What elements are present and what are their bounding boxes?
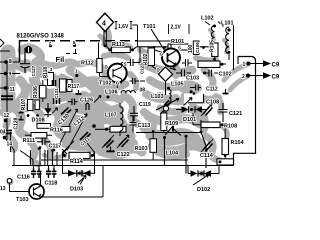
svg-text:C112: C112 [206,87,218,93]
svg-text:Fil: Fil [56,55,65,64]
svg-text:R118: R118 [43,67,49,79]
svg-text:C9: C9 [272,75,280,81]
svg-text:D103: D103 [70,187,83,193]
svg-text:2: 2 [242,74,245,80]
svg-text:08: 08 [140,88,146,94]
svg-text:R114: R114 [70,159,84,165]
svg-text:C9: C9 [272,63,280,69]
svg-text:R103: R103 [135,146,148,152]
svg-text:C103: C103 [186,76,199,82]
svg-text:4: 4 [102,20,106,27]
svg-text:C108: C108 [206,99,219,105]
svg-text:D108: D108 [32,118,45,124]
svg-text:9: 9 [9,72,12,78]
svg-text:C128: C128 [14,117,20,129]
svg-text:R108: R108 [224,124,237,130]
svg-text:13: 13 [0,186,6,192]
svg-text:C106: C106 [195,42,200,53]
svg-text:R113: R113 [112,42,125,48]
svg-text:1: 1 [243,62,246,68]
svg-text:G: G [160,52,164,57]
svg-text:04: 04 [0,130,6,136]
svg-text:L103: L103 [151,94,164,100]
svg-text:C102: C102 [219,72,232,78]
svg-text:S: S [178,46,181,51]
svg-text:1,6V: 1,6V [118,24,129,30]
svg-text:2,1V: 2,1V [171,25,182,31]
svg-text:100: 100 [188,44,194,53]
svg-text:C127: C127 [31,65,36,76]
svg-text:R104: R104 [231,140,245,146]
svg-text:R109: R109 [165,121,178,127]
svg-text:R107: R107 [21,98,27,110]
svg-text:C114: C114 [200,153,214,159]
svg-text:L104: L104 [166,151,179,157]
svg-text:11: 11 [10,87,16,93]
svg-text:S: S [124,62,127,67]
svg-text:C131: C131 [54,88,59,99]
svg-text:C113: C113 [138,123,151,129]
svg-text:C121: C121 [229,111,242,117]
svg-text:R111: R111 [23,138,36,144]
svg-text:L106: L106 [105,90,118,96]
svg-text:C116: C116 [17,175,30,181]
svg-text:L107: L107 [105,113,117,119]
svg-text:L102: L102 [201,16,214,22]
svg-text:8120G/VSO 1348: 8120G/VSO 1348 [17,33,65,39]
svg-text:C119: C119 [139,102,151,108]
svg-text:8: 8 [9,59,12,65]
svg-text:D102: D102 [197,187,210,193]
svg-text:L105: L105 [171,82,184,88]
svg-text:T103: T103 [16,197,29,203]
svg-text:C118: C118 [45,181,58,187]
svg-text:R101: R101 [171,39,184,45]
svg-text:R117: R117 [68,84,80,90]
svg-text:C117: C117 [49,144,62,150]
svg-text:R116: R116 [50,128,63,134]
svg-text:D101: D101 [183,117,196,123]
svg-text:14: 14 [7,142,13,148]
svg-text:C126: C126 [80,98,93,104]
svg-text:12: 12 [4,113,10,119]
svg-text:L101: L101 [221,21,234,27]
svg-text:C122: C122 [117,152,130,158]
svg-text:R112: R112 [81,61,94,67]
svg-text:G: G [116,81,120,86]
svg-text:C123: C123 [140,63,145,74]
svg-text:R106: R106 [33,86,39,98]
svg-text:T102: T102 [99,81,112,87]
svg-text:T101: T101 [143,24,156,30]
svg-text:R105: R105 [210,40,216,52]
